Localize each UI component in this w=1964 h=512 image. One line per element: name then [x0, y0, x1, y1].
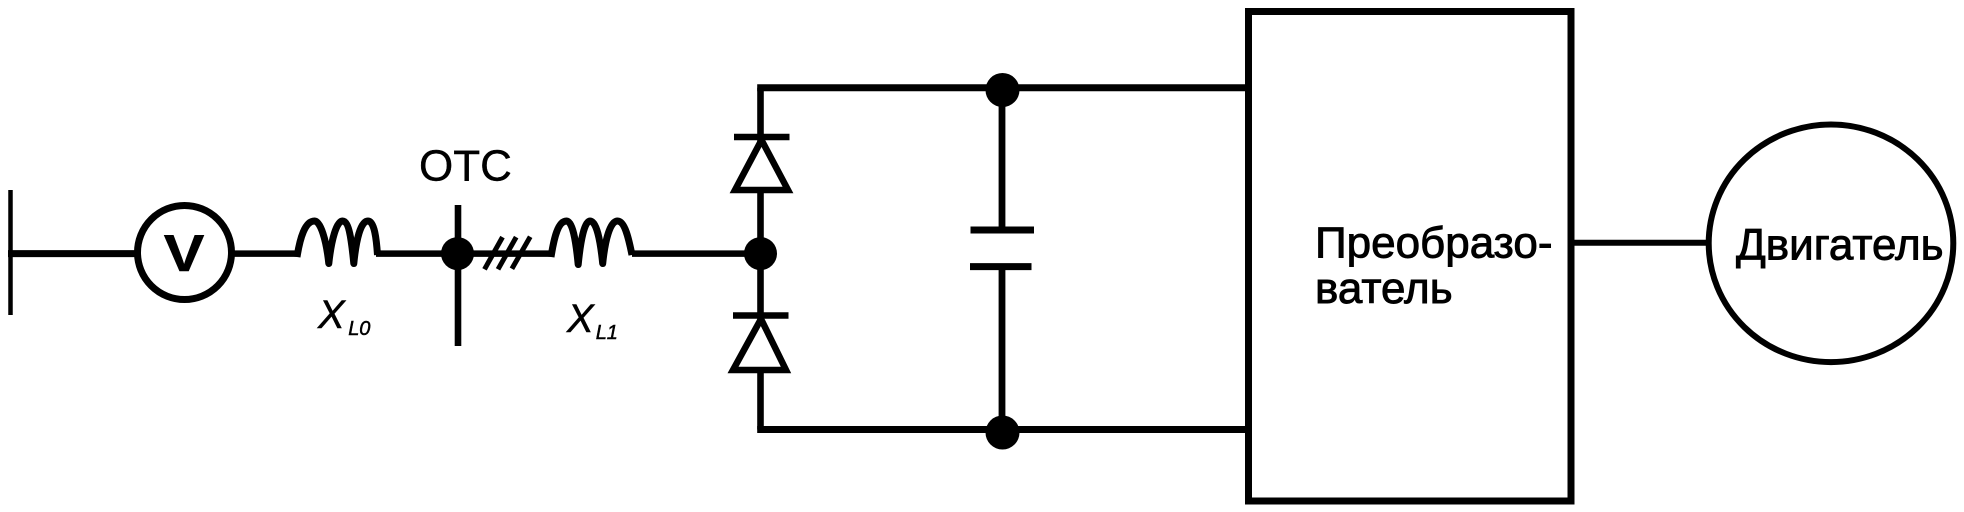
svg-text:Двигатель: Двигатель: [1736, 220, 1944, 269]
diode D1 triangle: [735, 140, 788, 190]
inductor XL0: [297, 221, 378, 264]
rectifier branch vertical wire: [757, 88, 764, 430]
capacitor C1 top plate: [971, 227, 1035, 234]
node OTC junction dot: [441, 237, 474, 270]
node rectifier junction dot: [744, 237, 777, 270]
disconnect slash 2: [498, 237, 516, 269]
converter box U1: [1249, 12, 1572, 502]
svg-text:ватель: ватель: [1315, 264, 1453, 313]
junction node top: [986, 73, 1020, 107]
wire voltmeter to inductor XL0: [230, 250, 297, 257]
capacitor C1 bottom lead: [999, 270, 1006, 430]
wire bus to voltmeter: [8, 250, 140, 257]
capacitor C1 bottom plate: [970, 263, 1032, 270]
top rail wire: [757, 84, 1248, 91]
junction node bottom: [986, 416, 1020, 450]
disconnect slash 1: [485, 237, 503, 269]
svg-text:V: V: [164, 224, 205, 282]
svg-text:ОТС: ОТС: [419, 142, 512, 191]
svg-text:Преобразо-: Преобразо-: [1315, 219, 1553, 268]
disconnect slash 3: [512, 237, 530, 269]
wire node OTC to inductor XL1: [470, 250, 552, 257]
bus bar terminal: [8, 190, 13, 315]
diode D1 cathode bar: [734, 134, 790, 141]
wire converter to motor: [1572, 240, 1710, 246]
diode D2 triangle: [733, 319, 786, 370]
bottom rail wire: [757, 426, 1248, 433]
wire inductor XL1 to rectifier node: [632, 250, 762, 257]
OTC tap vertical wire: [455, 205, 462, 346]
inductor XL1: [551, 221, 632, 265]
motor M1 circle: [1709, 125, 1954, 363]
diode D2 cathode bar: [733, 312, 789, 319]
voltmeter V1 circle: [138, 206, 232, 300]
capacitor C1 top lead: [999, 88, 1006, 227]
wire inductor XL0 to node OTC: [376, 250, 460, 257]
